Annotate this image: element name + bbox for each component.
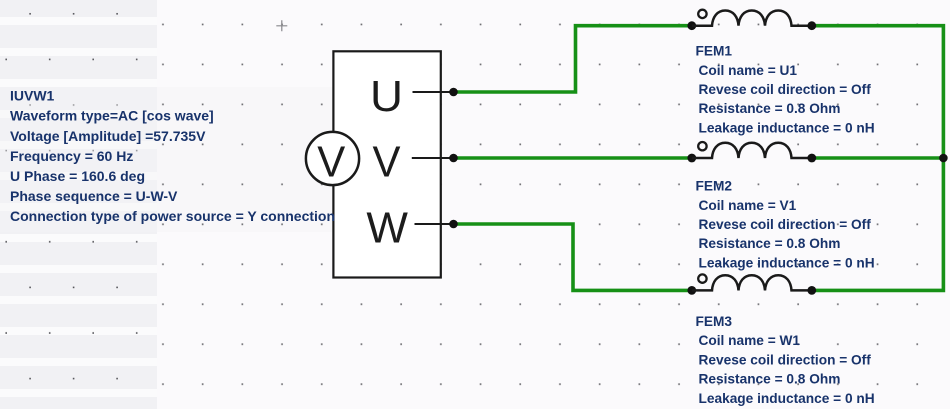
svg-text:Revese coil direction = Off: Revese coil direction = Off [699, 82, 872, 97]
terminal line W [415, 223, 454, 225]
coil parameter text FEM3 [696, 314, 875, 406]
svg-text:Coil name = V1: Coil name = V1 [699, 198, 797, 213]
coil FEM2 [687, 142, 816, 162]
wire W phase green [454, 224, 693, 290]
svg-text:U Phase = 160.6 deg: U Phase = 160.6 deg [10, 168, 145, 184]
node U junction dot [449, 88, 458, 97]
node V junction dot [449, 154, 458, 163]
svg-text:Revese coil direction = Off: Revese coil direction = Off [699, 217, 872, 232]
svg-text:Resistance = 0.8 Ohm: Resistance = 0.8 Ohm [699, 236, 841, 251]
wire U phase green [454, 26, 693, 92]
svg-text:Resistance = 0.8 Ohm: Resistance = 0.8 Ohm [699, 101, 841, 116]
terminal line V [412, 157, 454, 159]
svg-text:Revese coil direction = Off: Revese coil direction = Off [699, 352, 872, 367]
wire V phase green [454, 156, 944, 160]
coil FEM1 [687, 10, 816, 30]
svg-text:IUVW1: IUVW1 [10, 88, 55, 104]
wire neutral bus green [812, 26, 944, 291]
svg-text:Resistance = 0.8 Ohm: Resistance = 0.8 Ohm [699, 372, 841, 387]
svg-text:Coil name = W1: Coil name = W1 [699, 333, 801, 348]
voltmeter source circle [306, 132, 359, 185]
coil parameter text FEM1 [696, 44, 875, 136]
svg-text:Waveform type=AC [cos wave]: Waveform type=AC [cos wave] [10, 108, 214, 124]
svg-text:Coil name = U1: Coil name = U1 [699, 63, 798, 78]
coil parameter text FEM2 [696, 179, 875, 271]
svg-text:Leakage inductance = 0 nH: Leakage inductance = 0 nH [699, 255, 875, 270]
svg-text:W: W [366, 203, 408, 252]
left textured strip [0, 0, 157, 409]
svg-text:V: V [373, 138, 402, 187]
svg-text:V: V [317, 138, 346, 187]
svg-text:FEM1: FEM1 [696, 44, 733, 59]
svg-text:Phase sequence = U-W-V: Phase sequence = U-W-V [10, 188, 178, 204]
svg-text:Frequency = 60 Hz: Frequency = 60 Hz [10, 148, 133, 164]
svg-text:FEM3: FEM3 [696, 314, 733, 329]
node W junction dot [449, 220, 458, 229]
power source box U1 [333, 51, 440, 277]
svg-text:Leakage inductance = 0 nH: Leakage inductance = 0 nH [699, 120, 875, 135]
svg-text:Voltage [Amplitude] =57.735V: Voltage [Amplitude] =57.735V [10, 128, 206, 144]
origin crosshair [276, 20, 287, 31]
coil FEM3 [687, 274, 816, 294]
source parameter text IUVW1 [10, 88, 335, 225]
svg-text:Leakage inductance = 0 nH: Leakage inductance = 0 nH [699, 391, 875, 406]
faint halo behind parameter text [0, 87, 336, 232]
node neutral junction dot [939, 154, 948, 163]
terminal line U [413, 91, 454, 93]
svg-text:FEM2: FEM2 [696, 179, 733, 194]
svg-text:U: U [370, 72, 403, 121]
svg-text:Connection type of power sourc: Connection type of power source = Y conn… [10, 208, 335, 224]
